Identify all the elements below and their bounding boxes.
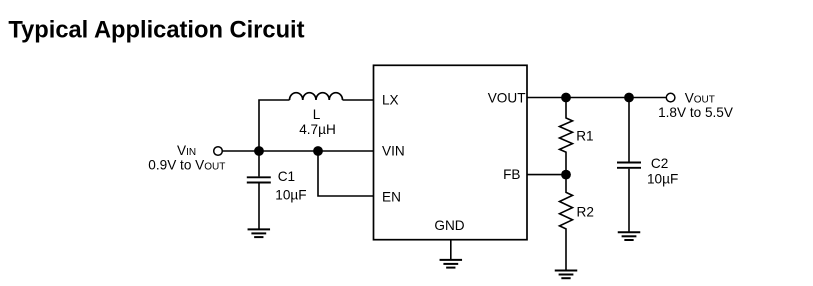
ground (C1) <box>248 229 270 237</box>
svg-text:10µF: 10µF <box>275 187 306 202</box>
wire: VOUT output rail <box>527 97 667 99</box>
svg-text:VIN: VIN <box>382 144 405 159</box>
svg-text:C1: C1 <box>278 169 295 184</box>
svg-text:Typical Application Circuit: Typical Application Circuit <box>8 18 304 44</box>
capacitor C1 <box>247 151 271 229</box>
wire: EN branch <box>318 151 374 196</box>
svg-text:EN: EN <box>382 190 401 205</box>
svg-text:L: L <box>313 107 321 122</box>
ground (C2) <box>618 232 641 240</box>
wire: FB <box>527 174 566 176</box>
svg-text:R1: R1 <box>576 129 593 144</box>
svg-text:10µF: 10µF <box>647 172 678 187</box>
output terminal VOUT <box>666 93 675 102</box>
wire: GND stem <box>450 240 452 260</box>
input terminal VIN <box>214 147 223 156</box>
svg-text:4.7µH: 4.7µH <box>299 122 336 137</box>
node: R1 top junction <box>561 93 571 103</box>
svg-text:VOUT: VOUT <box>685 90 715 105</box>
node: FB junction <box>561 170 571 180</box>
svg-text:LX: LX <box>382 92 399 107</box>
inductor L <box>290 93 343 100</box>
ground (IC GND) <box>440 260 463 268</box>
IC block <box>374 65 528 239</box>
svg-text:VOUT: VOUT <box>488 90 526 105</box>
svg-text:1.8V to 5.5V: 1.8V to 5.5V <box>658 105 733 120</box>
svg-text:C2: C2 <box>651 156 668 171</box>
node: C2 top junction <box>624 93 634 103</box>
node: EN branch junction <box>313 146 323 156</box>
node: VIN/L/C1 junction <box>254 146 264 156</box>
resistor R2 <box>560 175 573 271</box>
wire: inductor to LX pin <box>343 99 374 101</box>
resistor R1 <box>560 98 573 175</box>
capacitor C2 <box>617 98 641 233</box>
wire: node up to inductor row <box>259 100 290 151</box>
svg-text:GND: GND <box>434 218 464 233</box>
ground (R2) <box>555 271 578 279</box>
svg-text:0.9V to VOUT: 0.9V to VOUT <box>148 157 225 172</box>
wire: VIN input rail <box>218 150 374 152</box>
svg-text:VIN: VIN <box>177 143 196 158</box>
svg-text:R2: R2 <box>577 204 594 219</box>
svg-text:FB: FB <box>503 167 520 182</box>
